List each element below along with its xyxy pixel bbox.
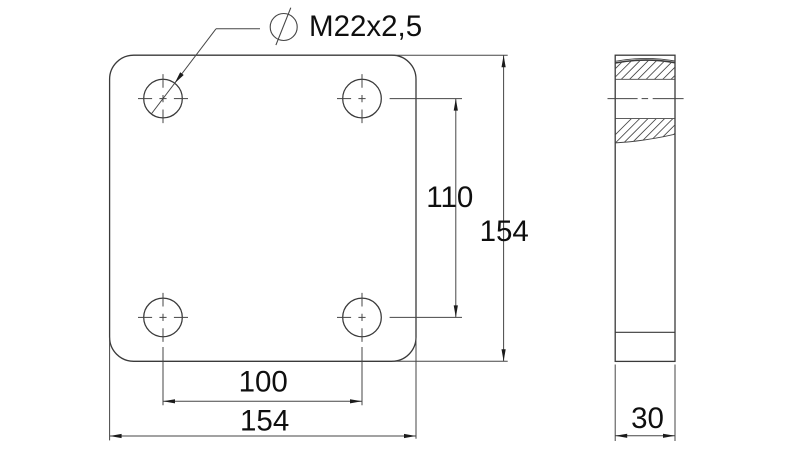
plate outline (front view, rounded square 154x154) (110, 55, 416, 361)
side view outline (30 thick plate) (615, 55, 675, 361)
arrowhead 100 left (163, 399, 175, 403)
arrowhead 100 right (350, 399, 362, 403)
dimension line 30 (615, 435, 675, 437)
hatch band upper bottom boundary (615, 78, 675, 80)
dimension line 154 bottom (110, 435, 416, 437)
extension line side view right edge down to 30 dimension (674, 365, 676, 442)
extension line from bottom-right hole down to 100 dimension (361, 347, 363, 405)
extension line plate top edge to 154 dimension (392, 54, 508, 56)
dimension line 110 (455, 99, 457, 318)
hole top-left (M22x2,5) (144, 79, 183, 118)
svg-text:M22x2,5: M22x2,5 (309, 10, 422, 43)
hole top-right (343, 79, 382, 118)
hole bottom-right (343, 298, 382, 337)
arrowhead 30 right (663, 434, 675, 438)
extension line from bottom-right hole to 110 dimension (390, 316, 462, 318)
svg-text:30: 30 (631, 402, 664, 435)
dimension line 100 (163, 400, 362, 402)
center mark of bottom-right hole (337, 293, 366, 342)
svg-text:110: 110 (426, 181, 473, 214)
leader line to top-left hole (151, 29, 260, 114)
thread runout curve (lower boundary) (615, 134, 675, 143)
extension line plate bottom edge to 154 dimension (392, 360, 508, 362)
thread crest arc (thin) at top of side view (615, 58, 675, 61)
arrowhead 30 left (615, 434, 627, 438)
dimension line 154 vertical (503, 55, 505, 361)
arrowhead 154 bottom right (404, 434, 416, 438)
bottom face line in side view (615, 331, 675, 333)
hole bottom-left (144, 298, 183, 337)
svg-text:154: 154 (240, 405, 289, 438)
extension line from bottom-left hole down to 100 dimension (162, 347, 164, 405)
chamfer arc (thick) at top of side view (615, 60, 675, 63)
center mark of top-left hole (138, 74, 188, 123)
arrowhead 154 right top (502, 55, 506, 67)
arrowhead 154 bottom left (110, 434, 122, 438)
center mark of top-right hole (337, 74, 366, 123)
arrowhead 154 right bottom (502, 349, 506, 361)
extension line from plate right edge down to 154 dimension (415, 338, 417, 439)
diameter symbol (270, 8, 297, 45)
extension line from plate left edge down to 154 dimension (109, 338, 111, 441)
arrowhead 110 bottom (454, 305, 458, 317)
leader arrowhead at hole edge (175, 72, 184, 83)
extension line side view left edge down to 30 dimension (614, 365, 616, 442)
hatch band lower top boundary (615, 118, 675, 120)
svg-text:154: 154 (480, 215, 529, 248)
section hatch band lower (602, 114, 711, 148)
extension line from top-right hole to 110 dimension (390, 98, 462, 100)
center mark of bottom-left hole (138, 293, 188, 342)
svg-text:100: 100 (239, 366, 288, 399)
hole centerline in side view (608, 98, 684, 100)
arrowhead 110 top (454, 99, 458, 111)
